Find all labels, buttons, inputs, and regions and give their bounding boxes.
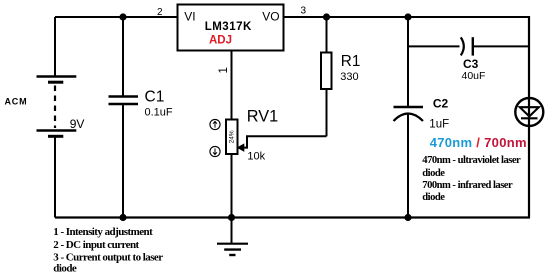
wire C2 branch top xyxy=(407,17,409,107)
battery BT1 long plate bottom xyxy=(37,129,77,131)
svg-text:diode: diode xyxy=(53,263,77,272)
svg-text:9V: 9V xyxy=(70,117,85,131)
wiper arrowhead xyxy=(238,144,244,151)
wire RV1 bottom xyxy=(231,154,233,218)
svg-text:R1: R1 xyxy=(341,53,361,70)
svg-text:1uF: 1uF xyxy=(429,118,449,130)
wire wiper to R1 xyxy=(241,136,327,147)
svg-text:10k: 10k xyxy=(247,151,265,163)
battery BT1 top wire xyxy=(54,17,56,77)
wire ADJ pin down xyxy=(231,51,233,120)
svg-text:VO: VO xyxy=(262,10,279,24)
svg-text:700nm - infrared laser: 700nm - infrared laser xyxy=(422,180,513,191)
svg-text:ACM: ACM xyxy=(5,97,28,107)
svg-text:3: 3 xyxy=(301,6,307,17)
svg-text:VI: VI xyxy=(184,10,195,24)
RV1 down arrow circle xyxy=(210,146,220,156)
svg-text:diode: diode xyxy=(422,168,445,179)
capacitor C1 plate top xyxy=(109,95,139,98)
resistor R1 bottom wire xyxy=(326,89,328,136)
svg-text:470nm - ultraviolet laser: 470nm - ultraviolet laser xyxy=(422,155,521,166)
svg-text:diode: diode xyxy=(422,192,445,203)
resistor R1 top wire xyxy=(326,17,328,53)
node junction C2/C3 top xyxy=(404,13,411,20)
svg-text:470nm / 700nm: 470nm / 700nm xyxy=(430,135,527,150)
capacitor C3 straight plate xyxy=(472,37,474,55)
svg-text:LM317K: LM317K xyxy=(205,21,252,33)
wire laser diode branch vertical xyxy=(528,16,530,218)
battery BT1 long plate top xyxy=(37,75,77,77)
wire top rail left (battery to VI) xyxy=(55,16,178,18)
ground stub wire xyxy=(231,218,233,244)
ground symbol xyxy=(217,243,248,245)
diode D1 laser circle xyxy=(515,98,543,126)
wire C2 branch bottom xyxy=(407,114,409,218)
battery BT1 short plate bottom xyxy=(48,135,63,138)
resistor R1 body xyxy=(321,53,332,90)
diode D1 triangle xyxy=(520,107,539,116)
battery BT1 short plate top xyxy=(48,81,63,84)
svg-text:0.1uF: 0.1uF xyxy=(145,106,173,118)
diode D1 cathode bar xyxy=(521,117,538,119)
wire top rail right (VO to laser) xyxy=(285,16,531,18)
capacitor C1 bottom wire xyxy=(122,104,124,218)
RV1 up arrow circle xyxy=(210,119,220,129)
svg-text:2 - DC input current: 2 - DC input current xyxy=(53,239,139,251)
node junction R1 top xyxy=(323,13,330,20)
svg-text:24%: 24% xyxy=(229,130,236,143)
node junction RV1/ground xyxy=(228,214,235,221)
capacitor C2 curved plate xyxy=(394,114,424,122)
node junction C1 bottom xyxy=(119,214,126,221)
op-amp U1 LM317K regulator box xyxy=(178,5,284,51)
node junction battery/C1 rail xyxy=(119,13,126,20)
wire bottom rail xyxy=(55,216,530,218)
svg-text:RV1: RV1 xyxy=(247,108,278,126)
svg-text:1: 1 xyxy=(218,67,230,73)
capacitor C2 straight plate xyxy=(394,106,424,108)
svg-text:330: 330 xyxy=(340,71,358,83)
svg-text:C1: C1 xyxy=(145,88,165,105)
svg-text:2: 2 xyxy=(157,7,163,18)
svg-text:C3: C3 xyxy=(463,57,479,71)
capacitor C1 top wire xyxy=(122,17,124,97)
capacitor C3 curved plate xyxy=(461,37,464,55)
svg-text:1 - Intensity adjustment: 1 - Intensity adjustment xyxy=(53,226,153,238)
wire C3 branch right xyxy=(474,45,530,47)
node junction C2 bottom xyxy=(404,214,411,221)
svg-text:C2: C2 xyxy=(433,96,449,110)
wire C3 branch left xyxy=(408,45,460,47)
capacitor C1 plate bottom xyxy=(109,103,139,106)
battery BT1 bottom wire xyxy=(54,137,56,218)
svg-text:40uF: 40uF xyxy=(462,70,486,82)
svg-text:ADJ: ADJ xyxy=(209,35,232,47)
potentiometer RV1 body xyxy=(226,120,238,155)
battery BT1 dashed link xyxy=(54,86,56,129)
